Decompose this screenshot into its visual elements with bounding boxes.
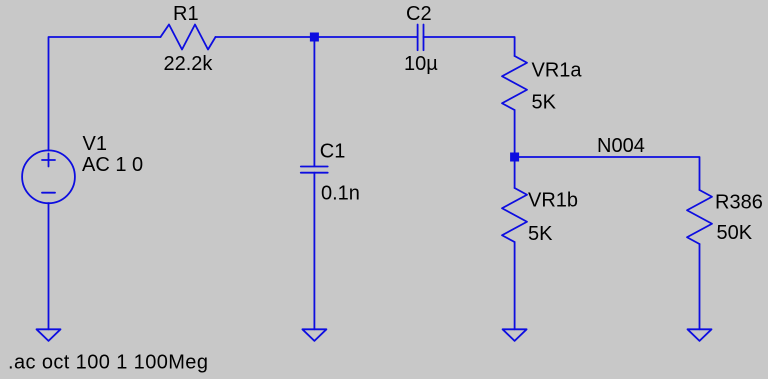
svg-text:.ac oct 100 1 100Meg: .ac oct 100 1 100Meg xyxy=(8,352,208,374)
svg-text:10µ: 10µ xyxy=(404,53,438,75)
svg-text:N004: N004 xyxy=(597,135,645,157)
wire node to VR1b xyxy=(514,157,516,188)
svg-text:V1: V1 xyxy=(83,133,107,155)
resistor VR1a xyxy=(502,56,527,110)
wire VR1a to node xyxy=(514,110,516,157)
ground below C1 xyxy=(302,329,326,341)
wire R1 to C2 xyxy=(216,36,418,38)
svg-text:50K: 50K xyxy=(717,222,753,244)
svg-text:AC 1 0: AC 1 0 xyxy=(82,154,143,176)
svg-text:VR1b: VR1b xyxy=(528,190,578,212)
voltage source V1 circle xyxy=(22,150,75,203)
resistor VR1b xyxy=(502,188,527,242)
wire top-left from V1 up and right to R1 xyxy=(49,37,161,151)
capacitor C1 xyxy=(301,166,328,168)
svg-text:R386: R386 xyxy=(715,192,763,214)
svg-text:22.2k: 22.2k xyxy=(164,53,214,75)
svg-text:C2: C2 xyxy=(406,3,432,25)
svg-text:0.1n: 0.1n xyxy=(321,182,360,204)
wire junction to C1 xyxy=(313,37,315,166)
wire node N004 to R386 xyxy=(515,157,700,190)
svg-text:C1: C1 xyxy=(320,140,346,162)
V1 minus sign xyxy=(42,192,55,194)
wire R386 to ground xyxy=(699,244,701,329)
capacitor C2 xyxy=(417,25,419,51)
ground below V1 xyxy=(37,329,61,341)
ground below VR1b xyxy=(503,329,527,341)
wire C2 to VR1a xyxy=(424,37,515,56)
svg-text:5K: 5K xyxy=(528,223,553,245)
V1 plus sign xyxy=(42,159,55,161)
svg-text:5K: 5K xyxy=(532,91,557,113)
junction node N004 xyxy=(510,153,519,162)
junction node at R1/C1/C2 xyxy=(310,33,319,42)
resistor R1 xyxy=(161,25,216,50)
wire C1 to ground xyxy=(313,173,315,330)
svg-text:R1: R1 xyxy=(173,3,199,25)
wire VR1b to ground xyxy=(514,242,516,329)
resistor R386 xyxy=(687,190,712,244)
ground below R386 xyxy=(688,329,712,341)
wire V1 to ground xyxy=(48,203,50,329)
svg-text:VR1a: VR1a xyxy=(532,60,583,82)
